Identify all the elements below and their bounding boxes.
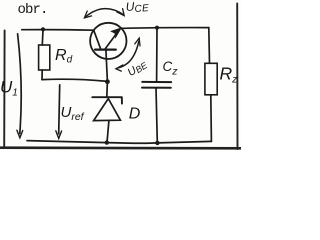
label UBE — [126, 58, 150, 80]
node Cz bottom junction — [155, 141, 159, 145]
wire top rail input to collector — [22, 29, 94, 32]
wire bottom rail — [27, 141, 211, 144]
wire top rail emitter to Rz — [121, 27, 208, 30]
svg-text:Cz: Cz — [163, 59, 179, 78]
voltage arrow Uref — [56, 85, 62, 139]
capacitor Cz — [142, 28, 171, 143]
node zener bottom junction — [105, 140, 109, 144]
voltage arrow UBE — [116, 38, 140, 71]
voltage arrow UCE — [84, 9, 124, 18]
node Rd tap junction — [41, 27, 45, 31]
resistor Rz — [205, 28, 217, 142]
svg-text:UCE: UCE — [125, 0, 149, 16]
svg-text:Uref: Uref — [61, 104, 85, 123]
svg-text:D: D — [129, 106, 141, 123]
svg-text:Rd: Rd — [55, 47, 73, 65]
svg-text:obr.: obr. — [18, 2, 48, 18]
wire Rd to base node — [42, 79, 107, 81]
svg-text:Rz: Rz — [220, 63, 239, 85]
resistor Rd — [39, 29, 50, 79]
zener diode D — [92, 82, 122, 143]
node Cz tap junction — [155, 26, 159, 30]
voltage arrow U1 — [17, 34, 23, 138]
svg-text:U1: U1 — [0, 78, 18, 99]
transistor T (NPN pass transistor) — [90, 23, 126, 82]
node base junction — [105, 79, 110, 84]
